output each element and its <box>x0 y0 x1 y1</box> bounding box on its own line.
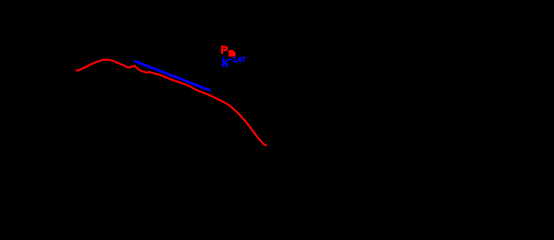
blue k^-5/3 fit line <box>135 61 210 90</box>
blue exponent minus sign <box>228 59 232 60</box>
svg-text:1.67: 1.67 <box>232 55 245 64</box>
svg-text:k: k <box>222 56 229 70</box>
red power-spectrum curve <box>77 60 267 146</box>
svg-text:P: P <box>221 44 228 56</box>
red label subscript blob <box>229 50 236 57</box>
